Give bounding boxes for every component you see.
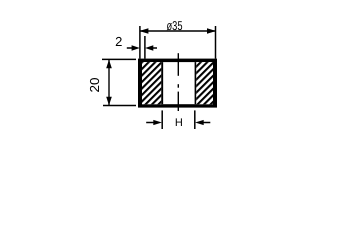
dimension ø35: dimension line — [140, 30, 216, 32]
dimension 2: right arrow tail — [153, 47, 158, 49]
dimension 2: left arrow tail — [127, 47, 133, 49]
svg-text:20: 20 — [87, 78, 102, 93]
dimension 20: top extension line — [102, 58, 136, 60]
bore right edge line — [194, 62, 196, 104]
svg-text:2: 2 — [115, 34, 122, 49]
dimension ø35: value label — [167, 18, 183, 33]
dimension H: value label — [175, 117, 183, 129]
dimension 2: left extension line (shared with ø35) — [144, 36, 146, 59]
wheel body outer rect (section outline) — [138, 59, 217, 108]
dimension 20: dimension line — [108, 60, 110, 105]
left hatched section — [142, 62, 161, 104]
dimension ø35: right extension line — [215, 26, 217, 59]
dimension H: left arrow tail — [146, 122, 154, 124]
dimension ø35: left arrowhead — [139, 28, 148, 34]
dimension 20: top arrowhead pointing up — [106, 60, 112, 69]
dimension ø35: right arrowhead — [207, 28, 216, 34]
dimension H: right arrow tail — [203, 122, 210, 124]
bore centerline (dash-dot) — [177, 53, 179, 111]
dimension 2: value label — [115, 34, 122, 49]
dimension 20: bottom arrowhead pointing down — [106, 97, 112, 106]
wheel body inner white area — [142, 62, 213, 104]
right hatched section — [196, 62, 213, 104]
svg-text:H: H — [175, 117, 183, 129]
dimension H: right extension line — [194, 110, 196, 129]
svg-text:ø35: ø35 — [167, 18, 183, 33]
dimension H: left arrowhead pointing right — [153, 120, 162, 125]
dimension H: left extension line — [161, 110, 163, 129]
dimension 20: value label (rotated) — [87, 78, 102, 93]
bore left edge line — [161, 62, 163, 104]
dimension H: right arrowhead pointing left — [195, 120, 204, 125]
dimension ø35: left extension line — [139, 26, 141, 59]
dimension 2: right arrowhead pointing left — [145, 45, 153, 50]
dimension 2: left arrowhead pointing right — [132, 45, 140, 50]
dimension 20: bottom extension line — [103, 105, 136, 107]
